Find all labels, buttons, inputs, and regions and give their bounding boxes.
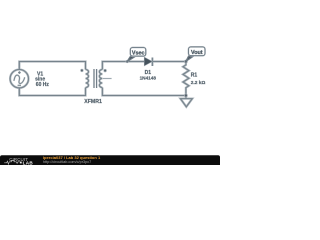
- svg-text:LAB: LAB: [23, 160, 34, 165]
- svg-text:2.2 kΩ: 2.2 kΩ: [191, 80, 206, 86]
- svg-text:60 Hz: 60 Hz: [36, 82, 50, 88]
- svg-text:R1: R1: [191, 72, 198, 78]
- svg-text:lpercia037 / Lab 32 question 1: lpercia037 / Lab 32 question 1: [43, 155, 101, 160]
- svg-text:http://circuitlab.com/c/pr3pc7: http://circuitlab.com/c/pr3pc7: [43, 160, 91, 164]
- svg-text:Vout: Vout: [191, 50, 203, 56]
- svg-text:XFMR1: XFMR1: [84, 99, 102, 105]
- svg-text:Vsec: Vsec: [132, 50, 145, 56]
- svg-text:1N4148: 1N4148: [140, 75, 157, 80]
